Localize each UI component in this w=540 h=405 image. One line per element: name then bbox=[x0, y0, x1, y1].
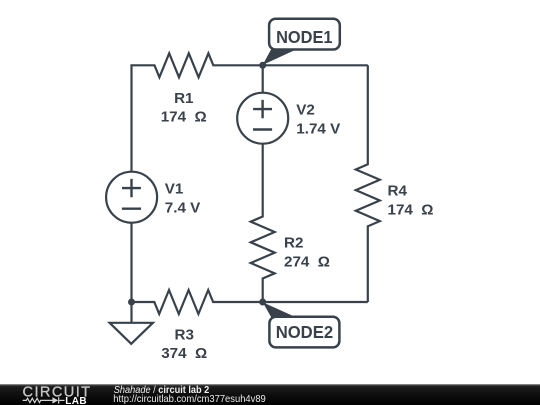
svg-text:http://circuitlab.com/cm377esu: http://circuitlab.com/cm377esuh4v89 bbox=[113, 394, 266, 405]
svg-text:NODE2: NODE2 bbox=[276, 322, 334, 342]
svg-text:1.74 V: 1.74 V bbox=[296, 121, 341, 138]
svg-text:LAB: LAB bbox=[65, 396, 87, 405]
svg-text:274 Ω: 274 Ω bbox=[284, 254, 330, 271]
svg-text:R4: R4 bbox=[388, 182, 408, 199]
svg-text:V1: V1 bbox=[165, 181, 184, 198]
svg-text:R1: R1 bbox=[174, 90, 194, 107]
svg-text:NODE1: NODE1 bbox=[276, 27, 333, 47]
svg-text:R2: R2 bbox=[284, 235, 303, 252]
svg-text:7.4 V: 7.4 V bbox=[165, 200, 201, 217]
svg-text:174 Ω: 174 Ω bbox=[388, 201, 434, 218]
svg-text:V2: V2 bbox=[296, 102, 315, 119]
svg-text:174 Ω: 174 Ω bbox=[161, 109, 207, 126]
svg-text:R3: R3 bbox=[174, 326, 193, 343]
svg-text:374 Ω: 374 Ω bbox=[161, 345, 207, 362]
